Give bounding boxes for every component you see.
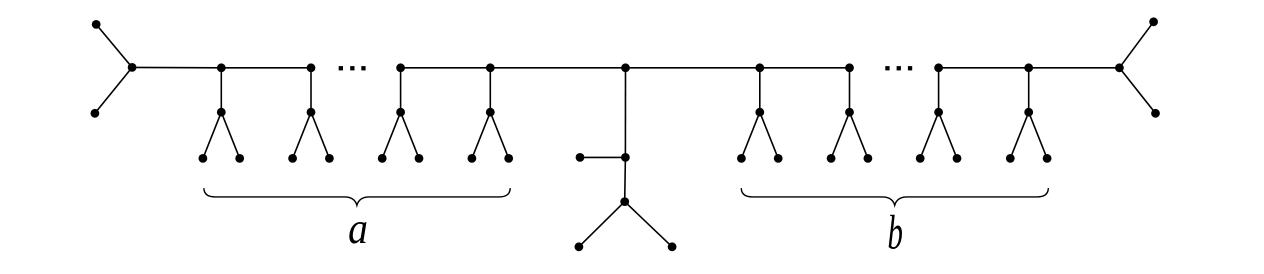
node cherry1 left leaf [199,154,208,163]
edge left-junction to spine s1 [132,66,221,68]
node spine s3 [396,63,405,72]
edge cherry7 mid to left leaf [920,112,938,158]
node middle m1 left leaf [576,153,585,162]
ellipsis left dots [339,66,366,70]
node cherry2 left leaf [288,154,297,163]
node cherry2 mid [307,108,316,117]
node cherry6 mid [845,108,854,117]
node cherry4 right leaf [504,154,513,163]
edge cherry3 mid to right leaf [401,112,419,158]
node cherry5 mid [755,108,764,117]
node cherry4 mid [486,108,495,117]
edge spine s3 to s4 [401,67,491,69]
edge spine s1 to s2 [221,67,311,69]
edge s2 to cherry2 mid [310,68,312,112]
node cherry1 right leaf [235,154,244,163]
edge m1 to left leaf [580,156,625,158]
edge cherry6 mid to left leaf [831,112,849,158]
edge right-junction to bottom-right leaf [1119,68,1155,114]
node top-left leaf [92,20,101,29]
edge cherry1 mid to right leaf [221,112,239,158]
node middle bottom-right leaf [668,242,677,251]
brace under group b [741,189,1048,206]
node cherry3 left leaf [378,154,387,163]
edge s3 to cherry3 mid [400,68,402,112]
edge left-junction to bottom-left leaf [95,67,132,113]
edge spine s5 to s6 [760,67,850,69]
edge left-junction to top-left leaf [96,24,132,67]
edge cherry8 mid to left leaf [1010,112,1028,158]
node cherry7 mid [934,108,943,117]
node top-right leaf [1149,17,1158,26]
node center spine vertex [621,63,630,72]
edge cherry8 mid to right leaf [1029,112,1047,158]
node cherry5 left leaf [737,154,746,163]
node cherry2 right leaf [325,154,334,163]
node cherry3 right leaf [415,154,424,163]
edge cherry2 mid to left leaf [293,112,311,158]
node cherry4 left leaf [468,154,477,163]
node left junction [128,63,137,72]
node cherry8 right leaf [1043,154,1052,163]
edge cherry6 mid to right leaf [850,112,868,158]
edge spine s4 to center [490,67,625,69]
node cherry7 left leaf [916,154,925,163]
node right junction [1115,63,1124,72]
edge cherry1 mid to left leaf [203,112,221,158]
edge cherry4 mid to left leaf [472,112,490,158]
node spine s7 [934,63,943,72]
ellipsis right dots [885,66,912,70]
svg-text:a: a [348,205,368,253]
edge cherry5 mid to right leaf [760,112,778,158]
edge m2 to bottom-left leaf [579,202,625,247]
node spine s5 [755,63,764,72]
edge s8 to cherry8 mid [1028,68,1030,112]
node bottom-right leaf [1151,109,1160,118]
edge s4 to cherry4 mid [489,68,491,112]
edge s5 to cherry5 mid [759,68,761,112]
node cherry8 mid [1024,108,1033,117]
node cherry1 mid [217,108,226,117]
edge center to middle vertex m1 [624,68,626,158]
edge cherry3 mid to left leaf [382,112,400,158]
edge m2 to bottom-right leaf [625,202,672,247]
node middle bottom-left leaf [575,242,584,251]
edge cherry4 mid to right leaf [490,112,508,158]
node middle m1 [621,153,630,162]
node cherry6 left leaf [827,154,836,163]
node middle m2 [620,197,629,206]
node spine s4 [486,63,495,72]
edge s6 to cherry6 mid [849,68,851,112]
edge right-junction to top-right leaf [1119,22,1153,68]
edge spine s8 to right-junction [1029,67,1120,69]
edge cherry7 mid to right leaf [939,112,957,158]
brace under group a [204,189,510,206]
edge s7 to cherry7 mid [938,68,940,112]
edge m1 to m2 [624,157,627,201]
node cherry3 mid [396,108,405,117]
node cherry5 right leaf [774,154,783,163]
node spine s8 [1024,63,1033,72]
node spine s2 [307,63,316,72]
edge s1 to cherry1 mid [220,68,222,112]
node bottom-left leaf [91,109,100,118]
edge center to spine s5 [626,67,760,69]
node cherry7 right leaf [953,154,962,163]
svg-text:b: b [887,206,902,260]
edge cherry5 mid to left leaf [741,112,759,158]
edge spine s7 to s8 [939,67,1029,69]
node spine s6 [845,63,854,72]
node cherry6 right leaf [864,154,873,163]
node spine s1 [217,63,226,72]
node cherry8 left leaf [1006,154,1015,163]
edge cherry2 mid to right leaf [311,112,329,158]
